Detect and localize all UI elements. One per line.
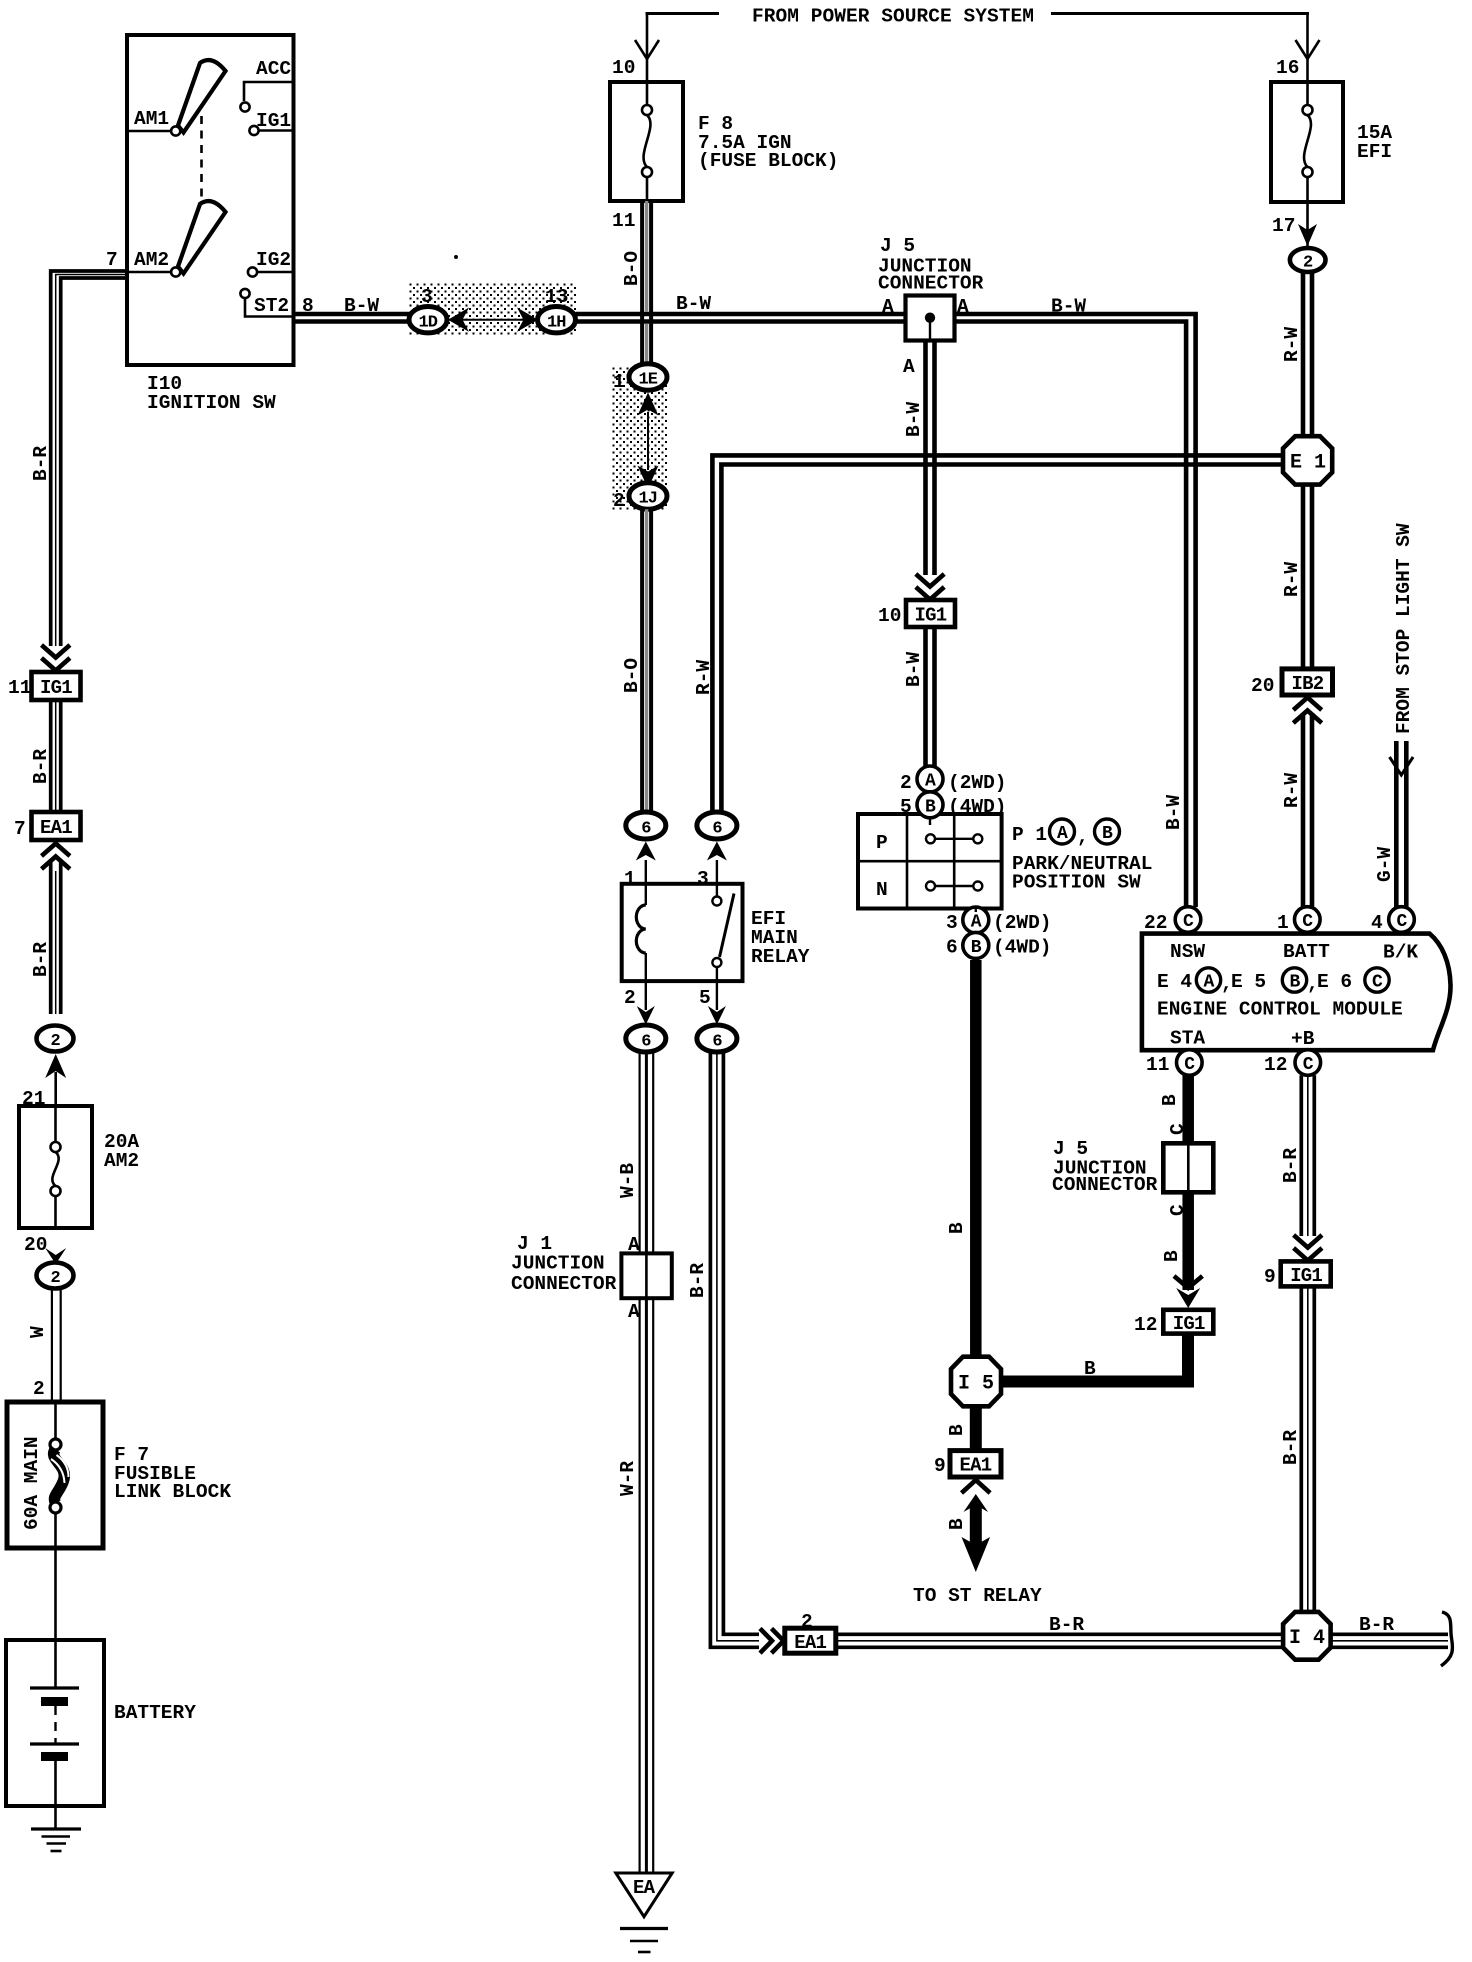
svg-text:1: 1 [613, 371, 625, 393]
svg-text:B-O: B-O [621, 251, 643, 286]
I10 wiper link dashed [200, 116, 203, 205]
svg-text:20: 20 [24, 1234, 47, 1256]
svg-text:2: 2 [624, 987, 636, 1009]
arrow chevrons down into IG1 [42, 645, 70, 658]
svg-text:(2WD): (2WD) [948, 772, 1007, 794]
arrow solid down into 12 IG1 [1176, 1288, 1200, 1308]
wire B-W from ST2 to 1D [293, 314, 410, 322]
svg-text:+B: +B [1291, 1028, 1315, 1050]
arrow chevrons up below IB2 [1293, 698, 1321, 711]
wire B-R EA1 to I4 [836, 1634, 1284, 1647]
svg-text:B-R: B-R [1280, 1148, 1302, 1183]
junction connector J5 lower box [1163, 1143, 1213, 1192]
svg-text:W-R: W-R [617, 1461, 639, 1496]
svg-text:20: 20 [1251, 675, 1274, 697]
svg-text:5: 5 [699, 987, 711, 1009]
arrow solid down into oval6 pin2 [637, 1006, 655, 1025]
svg-text:C: C [1397, 912, 1408, 932]
wire B-R pin12 to 9 IG1 [1301, 1075, 1314, 1236]
battery cells [54, 1640, 57, 1688]
wire R-W E1 to IB2 [1303, 485, 1312, 669]
ground point EA triangle [616, 1873, 672, 1917]
label B-W above ECM pin22 [1163, 795, 1185, 830]
svg-text:R-W: R-W [1281, 327, 1303, 362]
svg-text:4: 4 [1371, 912, 1383, 934]
arrow chevron open above 12 IG1 [1174, 1276, 1202, 1288]
connector oval 1E [629, 364, 667, 390]
svg-text:IGNITION SW: IGNITION SW [147, 392, 276, 414]
connector oval 6 (relay pin1) [626, 812, 666, 839]
svg-text:B-O: B-O [621, 658, 643, 693]
svg-text:B: B [1102, 824, 1113, 844]
svg-text:1H: 1H [547, 314, 566, 333]
wire header left horizontal [646, 12, 720, 15]
ECM pin 1 C circle [1295, 907, 1321, 933]
svg-text:B: B [925, 797, 936, 817]
wire B-R middle strand [56, 275, 127, 647]
svg-text:(2WD): (2WD) [993, 912, 1052, 934]
wire link 1E-1J [647, 412, 649, 470]
EFI main relay box [622, 884, 743, 981]
svg-text:G-W: G-W [1374, 847, 1396, 882]
svg-text:B-R: B-R [30, 942, 52, 977]
arrow chevrons down into 9 IG1 [1294, 1235, 1322, 1248]
fuse 20A AM2 box [19, 1106, 92, 1228]
svg-text:N: N [876, 879, 888, 901]
wire B-W IG1 to P/N pin2 [926, 627, 935, 767]
svg-text:(FUSE BLOCK): (FUSE BLOCK) [698, 150, 838, 172]
relay coil [645, 884, 647, 905]
svg-text:6: 6 [946, 937, 958, 959]
svg-text:C: C [1302, 912, 1313, 932]
svg-text:IG1: IG1 [915, 605, 947, 627]
wire pin3 stub [716, 860, 718, 884]
svg-text:B: B [946, 1222, 968, 1234]
wire pin5 stub [716, 981, 718, 1010]
wire link 1D-1H [462, 319, 526, 321]
wire W-R J1 to EA ground [640, 1298, 654, 1873]
label W [27, 1326, 49, 1338]
fusible link block F7 box [7, 1402, 103, 1548]
svg-text:C: C [1184, 1055, 1195, 1075]
fuse F8 element [642, 84, 652, 201]
I10 wiper AM2 [178, 201, 226, 273]
wire header right horizontal [1051, 12, 1309, 15]
svg-text:6: 6 [641, 820, 651, 839]
svg-text:C: C [1372, 973, 1383, 993]
arrow chevrons right into 2 EA1 [760, 1629, 772, 1654]
connector 10 IG1 box [906, 600, 955, 627]
svg-text:2: 2 [33, 1378, 45, 1400]
svg-text:EA1: EA1 [794, 1632, 826, 1654]
svg-text:E 6: E 6 [1317, 971, 1352, 993]
svg-text:9: 9 [934, 1455, 946, 1477]
connector oval 6 (relay pin5 out) [697, 1025, 737, 1052]
svg-text:B-R: B-R [1049, 1614, 1084, 1636]
wire B-W J5 down to chevrons [926, 341, 935, 576]
arrow solid right toward 1H [517, 308, 538, 332]
svg-text:B: B [946, 1518, 968, 1530]
wire pin17 to connector 2 [1306, 201, 1309, 250]
svg-text:,: , [1077, 826, 1089, 848]
svg-text:1D: 1D [419, 314, 438, 333]
connector oval 1J [629, 483, 667, 509]
wire B-O fuse F8 down to 1E [642, 201, 651, 364]
svg-text:FROM STOP LIGHT SW: FROM STOP LIGHT SW [1393, 523, 1415, 734]
arrow open V into EFI fuse [1296, 40, 1320, 59]
svg-text:A: A [903, 356, 915, 378]
label B-W below A [903, 402, 925, 437]
wire B-R IG1 to EA1 [51, 700, 61, 812]
svg-text:12: 12 [1264, 1054, 1287, 1076]
junction connector J5 box [906, 296, 955, 341]
svg-text:22: 22 [1144, 912, 1167, 934]
connector 9 EA1 box [950, 1451, 1001, 1477]
arrow solid down into oval6 pin5 [708, 1006, 726, 1025]
connector 20 IB2 box [1282, 669, 1333, 695]
svg-text:6: 6 [641, 1033, 651, 1052]
svg-text:60A MAIN: 60A MAIN [21, 1436, 43, 1530]
svg-text:9: 9 [1264, 1266, 1276, 1288]
wire B-R from AM2 left and down (outer line) [51, 271, 127, 646]
svg-text:IG1: IG1 [40, 677, 72, 699]
arrow chevron up below 9 EA1 [962, 1480, 991, 1493]
arrow solid up on B stub [964, 1494, 989, 1512]
svg-text:3: 3 [697, 868, 709, 890]
svg-text:6: 6 [712, 1033, 722, 1052]
label B-R [1280, 1148, 1302, 1183]
svg-text:B: B [1290, 973, 1301, 993]
svg-text:ACC: ACC [256, 58, 291, 80]
ignition switch I10 box [127, 35, 294, 365]
svg-text:17: 17 [1272, 215, 1295, 237]
wire B-R inner line [61, 278, 127, 646]
pin circle A (2WD) pin2 [917, 766, 943, 792]
label B-R mid left [30, 749, 52, 784]
svg-text:P 1: P 1 [1012, 824, 1047, 846]
svg-text:B: B [1161, 1250, 1183, 1262]
wire header left drop to F8 [646, 12, 649, 84]
svg-text:TO ST RELAY: TO ST RELAY [913, 1585, 1042, 1607]
continuation hook [1441, 1612, 1452, 1666]
svg-text:EFI: EFI [1357, 141, 1392, 163]
svg-text:1E: 1E [639, 371, 658, 390]
junction I4 octagon [1283, 1612, 1331, 1660]
connector 2 EA1 box [785, 1628, 836, 1653]
svg-text:ENGINE CONTROL MODULE: ENGINE CONTROL MODULE [1157, 999, 1403, 1021]
relay switch [716, 884, 718, 896]
arrow solid down to ST relay [962, 1537, 991, 1572]
svg-text:3: 3 [946, 912, 958, 934]
svg-text:1: 1 [624, 868, 636, 890]
svg-text:B-W: B-W [903, 402, 925, 437]
wire B-R relay pin5 down and right to EA1 [710, 1052, 759, 1647]
svg-text:JUNCTION: JUNCTION [511, 1253, 605, 1275]
ECM pin 11 C circle [1177, 1050, 1203, 1076]
junction I5 octagon [951, 1357, 1001, 1407]
svg-text:2: 2 [51, 1269, 61, 1288]
wire pin1 stub [645, 860, 647, 884]
svg-text:IB2: IB2 [1292, 673, 1324, 695]
pin circle B (4WD) pin5 [917, 792, 943, 818]
svg-text:B-R: B-R [30, 446, 52, 481]
svg-text:AM2: AM2 [134, 249, 169, 271]
wire B thick I5 down to 9 EA1 [970, 1406, 982, 1451]
svg-text:16: 16 [1276, 57, 1299, 79]
svg-text:R-W: R-W [1281, 562, 1303, 597]
svg-text:IG1: IG1 [256, 110, 291, 132]
svg-text:B: B [971, 938, 982, 958]
svg-text:P: P [876, 832, 888, 854]
svg-text:LINK BLOCK: LINK BLOCK [114, 1481, 231, 1503]
wire B thick P/N to I5 [970, 960, 982, 1357]
svg-text:R-W: R-W [693, 660, 715, 695]
wire B-W J5 to corner and down to ECM pin22 [955, 314, 1196, 907]
svg-text:C: C [1167, 1123, 1189, 1135]
wire B-R EA1 to connector 2 [51, 862, 61, 1014]
svg-text:C: C [1303, 1055, 1314, 1075]
label 60A MAIN vertical [21, 1436, 43, 1530]
svg-text:2: 2 [1303, 254, 1313, 273]
junction connector J1 box [621, 1253, 671, 1298]
svg-text:B-R: B-R [1359, 1614, 1394, 1636]
wire F7 to battery [54, 1548, 57, 1640]
svg-text:B-W: B-W [903, 652, 925, 687]
svg-text:IG1: IG1 [1173, 1313, 1205, 1335]
connector oval 2 (to fusible link) [37, 1263, 74, 1289]
svg-text:1: 1 [1277, 912, 1289, 934]
svg-text:CONNECTOR: CONNECTOR [511, 1273, 617, 1295]
stray dot [454, 255, 458, 259]
wire pin2 stub [645, 981, 647, 1010]
fuse F8 7.5A IGN box [610, 82, 683, 201]
label B-R relay column [687, 1263, 709, 1298]
svg-text:10: 10 [612, 57, 635, 79]
svg-text:BATTERY: BATTERY [114, 1702, 196, 1724]
arrow solid down toward 1J [638, 466, 659, 489]
arrow solid down into connector 2 [1298, 224, 1317, 246]
label R-W upper [1281, 327, 1303, 362]
pin circle B (4WD) pin6 [963, 932, 989, 958]
svg-text:E 4: E 4 [1157, 971, 1192, 993]
svg-text:2: 2 [51, 1032, 61, 1051]
label G-W [1374, 847, 1396, 882]
svg-text:FROM POWER SOURCE SYSTEM: FROM POWER SOURCE SYSTEM [752, 6, 1034, 28]
wire W double thin [51, 1289, 53, 1403]
svg-text:IG2: IG2 [256, 249, 291, 271]
svg-text:B-R: B-R [30, 749, 52, 784]
svg-text:B: B [1159, 1094, 1181, 1106]
svg-text:W: W [27, 1326, 49, 1338]
svg-text:A: A [1057, 824, 1068, 844]
connector oval 2 (to 20A AM2) [37, 1026, 74, 1052]
label B [946, 1518, 968, 1530]
label B-O lower [621, 658, 643, 693]
wire header right drop to EFI fuse [1306, 12, 1309, 84]
wire to 20A fuse [54, 1072, 57, 1106]
fuse 15A EFI element [1303, 84, 1313, 201]
wire E1 horizontal to R-W corner [712, 455, 1283, 813]
wire B stub to ST relay [970, 1505, 982, 1547]
svg-text:A: A [925, 772, 936, 792]
svg-text:CONNECTOR: CONNECTOR [878, 273, 984, 295]
svg-text:1J: 1J [639, 490, 657, 509]
svg-text:EA1: EA1 [40, 817, 72, 839]
label C below J5 [1167, 1204, 1189, 1216]
wire B thick I5 right to 12IG1 column [1001, 1334, 1188, 1382]
fuse 20A AM2 element [51, 1106, 61, 1228]
svg-text:I 4: I 4 [1289, 1627, 1325, 1650]
label B-R lower right [1280, 1430, 1302, 1465]
wire W-B oval6 to J1 [640, 1052, 654, 1253]
arrow chevrons up below EA1 [42, 844, 70, 857]
svg-text:(4WD): (4WD) [948, 796, 1007, 818]
svg-text:ST2: ST2 [254, 295, 289, 317]
label R-W above relay [693, 660, 715, 695]
shaded region around 1E/1J connector pair [612, 367, 668, 511]
svg-text:B-W: B-W [344, 295, 379, 317]
svg-text:J 5: J 5 [880, 235, 915, 257]
connector 7 EA1 box [32, 812, 81, 840]
svg-text:CONNECTOR: CONNECTOR [1052, 1174, 1158, 1196]
wire battery to ground [54, 1806, 57, 1829]
svg-text:A: A [1204, 973, 1215, 993]
arrow chevrons down into 10 IG1 [916, 574, 944, 587]
svg-text:C: C [1183, 912, 1194, 932]
connector oval 1D [409, 307, 447, 333]
wire B-W from 1H to J5 [576, 314, 906, 322]
svg-text:11: 11 [8, 677, 31, 699]
label B-R upper left [30, 446, 52, 481]
svg-text:A: A [882, 296, 894, 318]
svg-text:6: 6 [712, 820, 722, 839]
wire B thick J5 down [1182, 1192, 1194, 1290]
label C above J5 [1167, 1123, 1189, 1135]
svg-text:B-W: B-W [1163, 795, 1185, 830]
label W-R [617, 1461, 639, 1496]
ECM pin 22 C circle [1175, 907, 1201, 933]
arrow solid up toward 1E [638, 393, 659, 416]
svg-text:B-W: B-W [676, 293, 711, 315]
wire R-W oval2 to E1 [1303, 272, 1312, 437]
svg-text:2: 2 [613, 490, 625, 512]
arrow open V on G-W [1390, 757, 1414, 775]
label B [946, 1424, 968, 1436]
label B-R lower left [30, 942, 52, 977]
label FROM STOP LIGHT SW vertical [1393, 523, 1415, 734]
connector oval 1H [538, 307, 576, 333]
svg-text:A: A [971, 913, 982, 933]
arrow solid up into oval6 pin3 [707, 842, 727, 861]
wire B thick pin11 to J5 [1182, 1075, 1194, 1144]
fuse 15A EFI box [1271, 82, 1343, 202]
svg-text:12: 12 [1134, 1314, 1157, 1336]
svg-text:W-B: W-B [617, 1163, 639, 1198]
svg-text:E 5: E 5 [1231, 971, 1266, 993]
svg-text:I 5: I 5 [958, 1373, 994, 1396]
wire G-W from stop light sw [1396, 741, 1406, 907]
arrow solid up into oval 2 [45, 1054, 66, 1078]
svg-text:STA: STA [1170, 1028, 1205, 1050]
I10 wiper AM1 [178, 60, 226, 132]
label B [1159, 1094, 1181, 1106]
svg-text:BATT: BATT [1283, 941, 1330, 963]
svg-text:RELAY: RELAY [751, 946, 810, 968]
pin circle A (2WD) pin3 [963, 907, 989, 933]
battery box [6, 1640, 104, 1806]
ECM pin 4 C circle [1389, 907, 1415, 933]
engine control module box [1142, 934, 1451, 1051]
label R-W mid [1281, 562, 1303, 597]
connector 12 IG1 box [1163, 1310, 1213, 1334]
ground battery [31, 1829, 81, 1851]
svg-text:AM1: AM1 [134, 108, 169, 130]
junction E1 octagon [1283, 436, 1332, 484]
arrow solid up into oval6 pin1 [636, 842, 656, 861]
J5 junction dot and tap [925, 313, 935, 323]
svg-text:B-R: B-R [1280, 1430, 1302, 1465]
svg-text:R-W: R-W [1281, 773, 1303, 808]
connector oval 6 (relay pin3) [697, 812, 737, 839]
wire into P/N box [929, 818, 931, 825]
svg-text:EA1: EA1 [960, 1455, 992, 1477]
svg-text:11: 11 [612, 210, 635, 232]
svg-text:POSITION SW: POSITION SW [1012, 872, 1141, 894]
svg-text:AM2: AM2 [104, 1150, 139, 1172]
arrow solid left toward 1D [448, 308, 469, 332]
ground EA [620, 1929, 668, 1953]
svg-text:B: B [1084, 1358, 1096, 1380]
ECM pin 12 C circle [1295, 1050, 1321, 1076]
svg-text:B: B [946, 1424, 968, 1436]
connector 9 IG1 box [1281, 1261, 1331, 1286]
arrow open V into fuse F8 [635, 40, 659, 59]
svg-text:10: 10 [878, 605, 901, 627]
svg-text:(4WD): (4WD) [993, 937, 1052, 959]
shaded region around 1D/1H connector pair [408, 282, 576, 335]
svg-text:7: 7 [106, 249, 118, 271]
connector oval 2 (EFI fuse to harness) [1290, 248, 1326, 272]
svg-text:B-R: B-R [687, 1263, 709, 1298]
label W-B [617, 1163, 639, 1198]
svg-text:A: A [957, 296, 969, 318]
label B-W above P/N [903, 652, 925, 687]
svg-text:IG1: IG1 [1290, 1265, 1322, 1287]
park/neutral position switch box [858, 814, 1002, 909]
svg-text:7: 7 [14, 818, 26, 840]
svg-text:11: 11 [1146, 1054, 1169, 1076]
svg-text:B/K: B/K [1383, 942, 1418, 964]
arrow solid down into oval 2 lower [45, 1248, 66, 1264]
svg-text:5: 5 [900, 796, 912, 818]
wire B-R 9IG1 down to I4 [1301, 1286, 1314, 1613]
connector 11 IG1 box [32, 672, 81, 700]
connector oval 6 (relay pin2 out) [626, 1025, 666, 1052]
svg-text:A: A [628, 1301, 640, 1323]
wire B-R I4 continuation right [1331, 1634, 1448, 1647]
svg-text:B-W: B-W [1051, 296, 1086, 318]
fusible link element [54, 1402, 57, 1439]
svg-text:E 1: E 1 [1290, 452, 1326, 475]
label B [1161, 1250, 1183, 1262]
label B-O upper [621, 251, 643, 286]
svg-text:NSW: NSW [1170, 941, 1205, 963]
wire B-O 1J down to oval 6 [642, 509, 651, 812]
svg-text:2: 2 [900, 772, 912, 794]
label B [946, 1222, 968, 1234]
wire R-W IB2 to ECM pin1 [1303, 713, 1312, 907]
svg-text:EA: EA [633, 1877, 656, 1899]
